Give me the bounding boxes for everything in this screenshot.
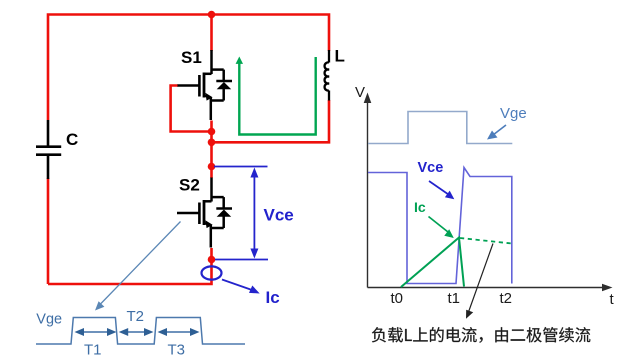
svg-text:C: C [66, 130, 78, 149]
svg-text:t1: t1 [448, 290, 461, 307]
svg-text:t0: t0 [391, 290, 404, 307]
annotation arrow freewheel text [466, 244, 493, 319]
svg-text:Vge: Vge [36, 312, 62, 328]
node S1 source junction [208, 128, 216, 136]
arrow Vge chart [487, 125, 506, 140]
svg-text:Vce: Vce [264, 206, 294, 225]
freewheel current loop arrow [236, 57, 316, 135]
chart Vge waveform [368, 112, 512, 144]
wire S1 source to S2 drain [210, 121, 213, 179]
transistor S2 [177, 178, 232, 248]
inductor L [325, 50, 329, 101]
Vce measurement line bottom [215, 259, 268, 261]
wire S1 drain from top rail [210, 15, 213, 52]
node S2 source [208, 256, 216, 264]
capacitor C [36, 120, 61, 179]
current probe ellipse [202, 266, 222, 279]
annotation arrow gate to Vge pulse [95, 222, 181, 311]
svg-text:t: t [610, 291, 615, 308]
wire left and top rail [48, 15, 329, 121]
wire left bottom rail [47, 178, 50, 284]
svg-text:Vge: Vge [500, 105, 527, 122]
svg-text:Ic: Ic [266, 288, 280, 307]
wire S2 source to bottom rail [48, 248, 212, 284]
svg-text:T3: T3 [168, 342, 186, 359]
node load branch junction [208, 139, 216, 147]
svg-text:Vce: Vce [418, 160, 444, 176]
svg-text:Ic: Ic [414, 199, 426, 215]
chart Ic freewheel dashed [460, 238, 512, 244]
arrow Ic chart [429, 217, 454, 239]
Vge gate pulse waveform [36, 318, 245, 345]
node top rail junction [208, 11, 216, 19]
svg-text:t2: t2 [500, 290, 513, 307]
Vce measurement line top [214, 166, 268, 168]
svg-text:S2: S2 [179, 176, 200, 195]
svg-text:L: L [335, 47, 345, 66]
arrow Vce chart [429, 181, 454, 199]
transistor S1 [177, 50, 232, 120]
node Vce top junction [208, 163, 216, 171]
svg-text:S1: S1 [181, 48, 202, 67]
arrow to Ic label [222, 280, 260, 294]
svg-text:V: V [355, 84, 365, 101]
T3 span arrow [158, 328, 200, 336]
wire S1 gate loop [171, 86, 212, 132]
chart Ic waveform [401, 238, 464, 288]
wire mid node to inductor [212, 100, 330, 142]
chart V axis [364, 93, 372, 288]
text freewheel note [372, 327, 590, 343]
T1 span arrow [75, 328, 117, 336]
svg-text:T1: T1 [84, 342, 102, 359]
chart Vce waveform [368, 168, 512, 284]
chart t axis [368, 284, 613, 292]
Vce double arrow [250, 168, 258, 259]
svg-text:T2: T2 [127, 308, 145, 325]
T2 span arrow [119, 328, 154, 336]
